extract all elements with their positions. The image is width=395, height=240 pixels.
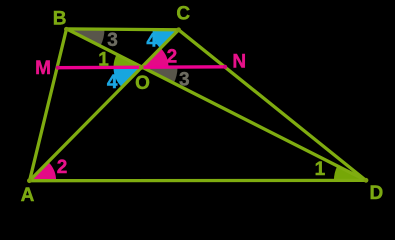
svg-text:1: 1 [315,159,326,180]
point A [27,178,32,183]
angle 1 wedge at D (angle ADB) [334,166,366,181]
point O [139,65,144,70]
svg-text:3: 3 [107,30,118,51]
side AB [30,29,67,181]
angle 1 wedge at O (angle MOB) [114,54,142,67]
svg-text:1: 1 [98,49,109,70]
angle 2 wedge at O (angle CON) [142,48,169,67]
side AD [30,179,366,183]
segment MN [57,65,225,69]
diagonal BD [67,29,366,181]
point C [176,27,181,32]
svg-text:O: O [135,73,150,94]
svg-text:A: A [21,185,35,206]
side CD [179,30,366,181]
diagonal AC [30,30,179,181]
point N [223,65,227,69]
side BC [67,27,179,31]
svg-text:2: 2 [57,157,68,178]
svg-text:4: 4 [107,72,118,93]
point M [56,66,60,70]
svg-text:M: M [35,58,51,79]
svg-text:4: 4 [146,30,157,51]
svg-text:D: D [370,183,384,204]
angle 3 wedge at B (angle CBD) [67,29,105,46]
svg-text:2: 2 [167,46,178,67]
angle 2 wedge at A (angle DAC) [30,162,56,181]
angle 4 wedge at C (angle BCA) [153,30,179,49]
angle 4 wedge at O (angle AOM) [114,67,142,87]
svg-text:N: N [232,51,246,72]
angle 3 wedge at O (angle NOD) [142,67,178,83]
point B [64,27,69,32]
svg-text:3: 3 [179,69,190,90]
svg-text:C: C [176,3,190,24]
point D [364,178,369,183]
svg-text:B: B [53,8,67,29]
